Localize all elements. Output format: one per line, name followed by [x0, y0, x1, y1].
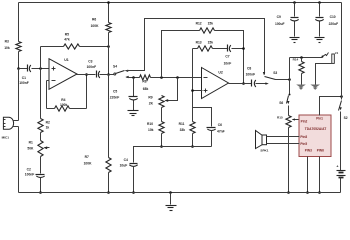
- node A junction: [17, 67, 20, 70]
- svg-text:100K: 100K: [84, 162, 93, 166]
- ground under J1: [310, 85, 320, 90]
- svg-text:C7: C7: [225, 55, 229, 59]
- wire R8 to U2 minus: [151, 77, 203, 79]
- svg-text:+: +: [336, 164, 338, 168]
- wire S2-battery: [340, 112, 342, 171]
- svg-text:C8: C8: [247, 66, 251, 70]
- ground under C9: [290, 38, 300, 43]
- capacitor C3: [77, 60, 114, 79]
- resistor R14: [293, 58, 305, 85]
- switch S4: [113, 64, 129, 78]
- wire R15-bus: [287, 128, 290, 194]
- svg-text:15k: 15k: [208, 40, 214, 44]
- wire R9 wiper: [164, 78, 177, 102]
- resistor R3: [4, 40, 21, 52]
- svg-text:R3: R3: [5, 40, 9, 44]
- wire mic rail lower: [18, 127, 20, 193]
- svg-text:R4: R4: [61, 98, 65, 102]
- wire V+ top rail: [19, 2, 342, 4]
- wire S4 lower throw: [127, 77, 140, 79]
- capacitor C2: [25, 167, 45, 192]
- svg-text:TDA7052A/AT: TDA7052A/AT: [305, 127, 327, 131]
- wire SPK1 to Pin8: [267, 136, 300, 138]
- wire R12 loop: [162, 31, 200, 78]
- potentiometer R1: [27, 141, 49, 157]
- junction C4-bus: [132, 191, 135, 194]
- resistor R2: [38, 119, 50, 133]
- svg-text:SPK1: SPK1: [260, 149, 268, 153]
- wire IC Pin6 stub: [318, 157, 321, 194]
- wire S6-R15: [288, 106, 290, 116]
- svg-text:R2: R2: [46, 120, 50, 124]
- svg-text:R1: R1: [29, 141, 33, 145]
- resistor R10: [147, 122, 164, 134]
- junction Pin1-rail: [340, 95, 343, 98]
- capacitor C10: [315, 3, 338, 37]
- wire left rail upper: [18, 3, 20, 42]
- wire R6 rail to R7: [108, 75, 110, 158]
- microphone MIC1: [2, 117, 14, 139]
- potentiometer R15: [277, 116, 291, 128]
- wire R6 rail top: [107, 1, 110, 22]
- node B junction (U1 + bias): [39, 67, 42, 70]
- svg-text:68k: 68k: [143, 87, 149, 91]
- svg-text:J1: J1: [335, 51, 339, 55]
- wire battery-bus: [340, 178, 342, 193]
- wire mixer rail: [289, 58, 291, 94]
- wire R14 row: [290, 56, 324, 59]
- wire tone network bottom: [134, 147, 212, 163]
- junction C3 row: [107, 73, 110, 76]
- svg-text:Pin5: Pin5: [300, 142, 307, 146]
- svg-text:220nF: 220nF: [110, 96, 120, 100]
- svg-text:U2: U2: [218, 71, 223, 75]
- junction U1 output: [85, 73, 88, 76]
- wire mic rail upper: [18, 69, 20, 121]
- svg-text:10k: 10k: [4, 46, 10, 50]
- svg-text:1k: 1k: [46, 126, 50, 130]
- op-amp U1: [49, 58, 77, 89]
- capacitor C7: [213, 45, 244, 66]
- wire MIC1 bottom terminal: [13, 126, 19, 128]
- svg-text:33k: 33k: [180, 128, 186, 132]
- wire C6 branch: [193, 108, 212, 127]
- svg-text:100nF: 100nF: [87, 65, 97, 69]
- svg-text:R7: R7: [85, 155, 89, 159]
- svg-text:47nF: 47nF: [217, 129, 225, 133]
- svg-text:C10: C10: [330, 15, 336, 19]
- junction C9 top: [293, 1, 296, 4]
- wire R15 wiper to Pin2: [292, 118, 300, 120]
- wire S4 upper throw bypass: [126, 19, 265, 75]
- switch S6: [279, 94, 290, 105]
- svg-text:100nF: 100nF: [25, 172, 35, 176]
- ground under R14: [296, 85, 306, 90]
- wire U2 plus input: [191, 49, 202, 122]
- svg-text:100k: 100k: [60, 103, 68, 107]
- ground under C10: [315, 38, 325, 43]
- junction S3-rail: [288, 78, 291, 81]
- svg-text:R15: R15: [277, 116, 283, 120]
- svg-text:100nF: 100nF: [246, 73, 256, 77]
- svg-text:C4: C4: [124, 158, 128, 162]
- wire SPK1 to Pin5: [267, 143, 300, 145]
- op-amp U2: [202, 68, 229, 99]
- resistor R12: [196, 22, 215, 33]
- svg-text:PIN6: PIN6: [317, 148, 324, 152]
- wire bias rail x40: [40, 47, 42, 119]
- svg-text:10nF: 10nF: [224, 62, 232, 66]
- ground under C5: [128, 111, 139, 116]
- svg-text:2K: 2K: [149, 101, 154, 105]
- wire Pin1 to V+ switch: [320, 97, 342, 116]
- svg-text:50K: 50K: [27, 146, 34, 150]
- potentiometer R9: [148, 95, 164, 107]
- resistor R4 feedback: [47, 98, 87, 111]
- svg-text:C6: C6: [218, 123, 222, 127]
- svg-text:Pin2: Pin2: [301, 119, 308, 123]
- svg-text:S2: S2: [344, 116, 348, 120]
- battery BAT1: [336, 164, 345, 177]
- wire R11-bottom line: [191, 134, 194, 148]
- junction C7-R12 vertical: [242, 47, 245, 50]
- wire R12 right: [215, 31, 244, 84]
- switch S2: [339, 101, 348, 121]
- svg-text:R11: R11: [179, 122, 185, 126]
- svg-text:100K: 100K: [91, 24, 100, 28]
- svg-text:C2: C2: [27, 167, 31, 171]
- wire R6 to C3 row: [108, 33, 110, 75]
- svg-text:C3: C3: [88, 60, 92, 64]
- capacitor C4 polarized: [120, 158, 138, 192]
- wire R9-R10: [161, 108, 163, 122]
- wire MIC1 top terminal: [13, 120, 19, 122]
- resistor R6: [91, 17, 112, 32]
- resistor R5: [41, 32, 109, 49]
- IC U3 TDA7052AT: [299, 115, 331, 157]
- junction C10 top: [318, 1, 321, 4]
- wire R2-R1: [40, 133, 42, 141]
- speaker SPK1: [256, 131, 269, 153]
- connector J1 jack: [316, 51, 339, 85]
- svg-text:10uF: 10uF: [120, 163, 128, 167]
- svg-text:47k: 47k: [64, 37, 70, 41]
- wire R4 up to output: [86, 75, 88, 109]
- svg-text:U1: U1: [64, 58, 69, 62]
- wire R1-C2: [40, 157, 42, 174]
- resistor R13: [196, 40, 214, 51]
- svg-text:10k: 10k: [148, 128, 154, 132]
- wire R13 branch: [193, 48, 198, 50]
- junction R5-R6 rail: [107, 45, 110, 48]
- wire V+ right rail: [341, 3, 343, 100]
- arrow S3 upper throw: [263, 72, 265, 75]
- junction feedback-output: [242, 82, 245, 85]
- svg-text:R5: R5: [65, 32, 69, 36]
- svg-text:R13: R13: [196, 40, 202, 44]
- wire R7-bus: [107, 173, 110, 194]
- resistor R8: [140, 75, 151, 91]
- wire R10-bottom line: [160, 134, 163, 148]
- svg-text:R10: R10: [147, 122, 153, 126]
- resistor R7: [84, 155, 112, 173]
- junction bus-ground: [169, 191, 172, 194]
- resistor R11: [179, 122, 196, 134]
- capacitor C9: [275, 3, 299, 37]
- svg-text:15k: 15k: [208, 22, 214, 26]
- svg-text:S4: S4: [113, 64, 117, 68]
- svg-text:Pin1: Pin1: [316, 117, 323, 121]
- junction node R13 top: [176, 76, 179, 79]
- svg-text:R14: R14: [293, 58, 299, 62]
- junction C5 branch: [132, 76, 135, 79]
- capacitor C5: [110, 78, 138, 111]
- svg-text:R6: R6: [92, 17, 96, 21]
- capacitor C8: [229, 66, 269, 87]
- svg-text:100uF: 100uF: [275, 22, 285, 26]
- capacitor C6: [207, 123, 225, 146]
- capacitor C1: [19, 65, 50, 86]
- svg-text:S3: S3: [273, 71, 277, 75]
- svg-text:100nF: 100nF: [19, 81, 29, 85]
- wire R3 to node A: [18, 52, 20, 69]
- svg-text:PIN3: PIN3: [305, 148, 312, 152]
- switch S3: [265, 71, 290, 80]
- svg-text:Pin8: Pin8: [300, 135, 307, 139]
- svg-text:R12: R12: [196, 22, 202, 26]
- wire IC Pin3 stub: [306, 157, 309, 194]
- svg-text:MIC1: MIC1: [2, 136, 10, 140]
- ground symbol center: [166, 193, 177, 211]
- junction C2-bus: [39, 191, 42, 194]
- svg-text:C5: C5: [113, 90, 117, 94]
- svg-text:C9: C9: [277, 15, 281, 19]
- wire U1 minus input: [47, 81, 50, 109]
- wire ground bus: [19, 192, 341, 194]
- svg-text:220uF: 220uF: [329, 22, 339, 26]
- svg-text:S6: S6: [279, 101, 283, 105]
- svg-text:R8: R8: [142, 80, 146, 84]
- junction node R9 top: [160, 76, 163, 79]
- svg-text:R9: R9: [148, 95, 152, 99]
- svg-text:C1: C1: [22, 76, 26, 80]
